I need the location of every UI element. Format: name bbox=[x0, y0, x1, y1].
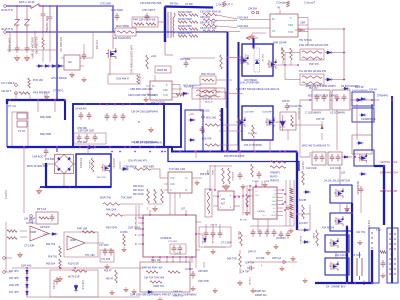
node junction extra bbox=[42, 31, 44, 33]
resistor R3 bbox=[290, 204, 293, 210]
wire led dn bbox=[321, 133, 323, 140]
wire mid stub bbox=[56, 147, 58, 152]
wire U7 bottom pin bbox=[159, 257, 161, 263]
svg-text:1M4 C6DR RFDWH 1K2: 1M4 C6DR RFDWH 1K2 bbox=[130, 45, 134, 74]
node junction extra bbox=[142, 217, 144, 219]
wire bbox=[5, 271, 12, 273]
diode D15 bbox=[121, 167, 129, 170]
resistor R30 bbox=[7, 237, 17, 240]
diode DL7 bbox=[359, 114, 367, 117]
wire doubler bbox=[36, 65, 63, 67]
capacitor CB3 bbox=[121, 113, 126, 121]
svg-text:C6R 4T6 L: C6R 4T6 L bbox=[112, 158, 114, 170]
svg-text:W6R: W6R bbox=[206, 170, 208, 175]
wire U4 to U7 a bbox=[169, 193, 171, 215]
node junction extra bbox=[26, 5, 28, 7]
wire BR1 in bbox=[42, 163, 54, 165]
resistor R18 bbox=[291, 115, 294, 127]
svg-text:CAP ASSM: CAP ASSM bbox=[8, 38, 12, 53]
wire to U4 bbox=[151, 168, 160, 170]
node line bbox=[16, 5, 18, 7]
svg-text:P4/9 FREHWR: P4/9 FREHWR bbox=[33, 92, 50, 95]
node bus A bbox=[134, 151, 136, 153]
wire bbox=[164, 189, 168, 191]
svg-text:4H 4/6DR: 4H 4/6DR bbox=[79, 158, 81, 168]
svg-text:UC3843A: UC3843A bbox=[160, 236, 172, 240]
capacitor C36 bbox=[359, 186, 364, 194]
capacitor CY2 bbox=[25, 45, 30, 53]
wire Q5 to bus bbox=[269, 140, 271, 152]
svg-text:1K0 C6R: 1K0 C6R bbox=[95, 40, 97, 50]
wire to U4 in bbox=[160, 177, 164, 179]
svg-text:W6R 7H6: W6R 7H6 bbox=[100, 197, 111, 200]
capacitor C20 bbox=[44, 148, 49, 156]
node bus A bbox=[119, 151, 121, 153]
node junction bbox=[111, 151, 113, 153]
wire bbox=[146, 93, 150, 95]
spark gap E1 bbox=[222, 1, 226, 7]
resistor R52 bbox=[380, 251, 386, 254]
wire Q4 to bus bbox=[253, 140, 255, 152]
svg-text:D4T 4H6: D4T 4H6 bbox=[9, 277, 19, 280]
ground GY1 bbox=[14, 55, 19, 61]
wire U8 out1 bbox=[234, 195, 240, 197]
svg-text:C/4 1C/D/H6V: C/4 1C/D/H6V bbox=[288, 106, 303, 108]
box aux bbox=[352, 135, 372, 154]
terminal CN1b bbox=[15, 92, 18, 95]
wire QA to QB bbox=[346, 203, 348, 213]
diode D4 bbox=[56, 65, 64, 68]
ground G-bx5 bbox=[280, 266, 284, 271]
resistor R58 bbox=[220, 110, 223, 123]
svg-text:1CT/0R: 1CT/0R bbox=[252, 181, 259, 183]
svg-text:CH3 4H6 R: CH3 4H6 R bbox=[116, 78, 129, 81]
svg-text:D1R 4T0: D1R 4T0 bbox=[4, 190, 6, 200]
svg-text:P10? 470: P10? 470 bbox=[309, 64, 319, 66]
resistor R2 bbox=[290, 196, 293, 202]
ground G-U2 bbox=[250, 34, 255, 39]
node junction bbox=[161, 151, 163, 153]
wire bbox=[80, 57, 84, 59]
capacitor C31 bbox=[320, 154, 325, 162]
node U7 bottom bbox=[185, 256, 187, 258]
node junction extra bbox=[296, 213, 298, 215]
node junction extra bbox=[238, 196, 240, 198]
capacitor CC3 bbox=[218, 230, 223, 238]
bridge rectifier BR1 bbox=[55, 155, 74, 174]
svg-text:TrtR: TrtR bbox=[170, 177, 175, 180]
svg-text:C 1C/D/WH6V: C 1C/D/WH6V bbox=[305, 112, 321, 115]
svg-text:KR4R C6DK: KR4R C6DK bbox=[178, 18, 192, 21]
wire right edge bus bbox=[391, 96, 393, 283]
node U9 bbox=[217, 196, 219, 198]
wire cap stub1 bbox=[205, 224, 207, 230]
svg-text:8C14T6: 8C14T6 bbox=[299, 236, 301, 245]
diode D24 bbox=[302, 229, 310, 232]
svg-text:W1 R 1/8 R4(2)/200: W1 R 1/8 R4(2)/200 bbox=[183, 85, 202, 87]
node U9 bbox=[233, 196, 235, 198]
svg-text:PC6 16K: PC6 16K bbox=[33, 79, 43, 82]
wire busA-B link bbox=[195, 152, 197, 159]
resistor R14 bbox=[205, 124, 219, 127]
wire bbox=[26, 29, 28, 33]
node junction extra bbox=[161, 151, 163, 153]
wire pwm in b bbox=[246, 185, 248, 215]
node band top bbox=[159, 103, 161, 105]
wire U3 top bbox=[154, 75, 156, 81]
node junction extra bbox=[16, 5, 18, 7]
ground GY2 bbox=[24, 55, 29, 61]
node line bbox=[8, 5, 10, 7]
box output filter band bbox=[73, 104, 181, 147]
wire sense line bbox=[12, 267, 100, 269]
capacitor CX1 bbox=[41, 6, 46, 32]
svg-text:W6R 12F/4R: W6R 12F/4R bbox=[273, 43, 287, 45]
ground G-C24 bbox=[105, 264, 109, 269]
box R left of U8 bbox=[205, 189, 212, 217]
box row2 loop bbox=[300, 74, 324, 85]
wire bbox=[80, 65, 84, 67]
svg-text:CT 1H: CT 1H bbox=[18, 130, 25, 133]
node junction extra bbox=[343, 52, 345, 54]
ground G-C26 bbox=[191, 286, 195, 291]
svg-text:P0/4T6R: P0/4T6R bbox=[201, 235, 203, 244]
resistor R28 bbox=[39, 217, 49, 220]
box cap cluster bbox=[199, 227, 231, 247]
wire bbox=[16, 29, 18, 33]
wire output drop bbox=[309, 205, 311, 230]
wire to U4 drop bbox=[159, 169, 161, 178]
node junction bbox=[74, 267, 76, 269]
wire U7 pin 1 bbox=[138, 222, 143, 224]
wire w stub bbox=[227, 52, 229, 58]
wire sense line ext bbox=[100, 267, 143, 269]
node junction bbox=[351, 212, 353, 214]
node band bbox=[122, 104, 124, 106]
svg-text:P101 100 P110 120 D10 4H6: P101 100 P110 120 D10 4H6 bbox=[299, 45, 329, 47]
ground G-C28 bbox=[241, 184, 245, 189]
diode DL6 bbox=[359, 98, 367, 101]
transistor Q9 bbox=[334, 216, 344, 226]
resistor R19 bbox=[19, 92, 30, 95]
wire U2 out3 bbox=[298, 31, 308, 33]
box RC filter bbox=[36, 212, 58, 224]
svg-text:P04 T1R: P04 T1R bbox=[237, 231, 239, 240]
wire D14 out bbox=[225, 93, 243, 95]
IC U8 optocoupler bbox=[218, 191, 234, 210]
node U7 pin bbox=[142, 222, 144, 224]
svg-text:8T1 36: 8T1 36 bbox=[240, 220, 247, 222]
capacitor C30 bbox=[314, 154, 319, 162]
svg-text:P0R 4T0 100: P0R 4T0 100 bbox=[201, 73, 216, 76]
svg-text:D4W8 310: D4W8 310 bbox=[255, 294, 267, 297]
svg-text:CHO RWR: CHO RWR bbox=[111, 9, 123, 12]
ground G-R40b bbox=[132, 289, 136, 294]
wire U4 dn bbox=[179, 193, 181, 198]
wire bbox=[26, 6, 28, 16]
svg-text:P0/4T6R: P0/4T6R bbox=[211, 235, 213, 244]
wire T1 primary bbox=[164, 7, 166, 43]
wire U7 pin 6 bbox=[138, 228, 143, 230]
box U6B bbox=[64, 232, 98, 257]
svg-text:R04 T04: R04 T04 bbox=[46, 243, 56, 246]
capacitor C39 bbox=[77, 134, 82, 142]
box R pair loop bbox=[192, 88, 225, 99]
wire filt out bbox=[342, 156, 352, 158]
node neutral bbox=[49, 31, 51, 33]
terminal J2 INPUT-N bbox=[4, 31, 7, 34]
node junction extra bbox=[49, 5, 51, 7]
resistor R44 bbox=[228, 168, 231, 184]
transformer T3 winding box bbox=[387, 228, 398, 283]
ground G-bx6 bbox=[303, 278, 307, 283]
wire opto1 bbox=[209, 165, 211, 190]
node junction extra bbox=[343, 28, 345, 30]
wire left edge link bbox=[6, 104, 8, 147]
svg-text:C/4T1R: C/4T1R bbox=[185, 269, 193, 271]
node junction bbox=[129, 146, 131, 148]
wire busA-B link2 bbox=[239, 152, 241, 159]
diode DL1 bbox=[26, 268, 29, 276]
node line bbox=[42, 5, 44, 7]
node junction extra bbox=[346, 282, 348, 284]
svg-text:HIV T2T 0D: HIV T2T 0D bbox=[299, 39, 312, 42]
ground G-standby bbox=[36, 188, 41, 194]
resistor R11b bbox=[290, 48, 293, 60]
wire BR1 gnd bbox=[69, 186, 71, 188]
wire secondary bus B bbox=[168, 147, 299, 171]
resistor R22 bbox=[134, 168, 151, 171]
capacitor CB1 bbox=[105, 113, 110, 121]
wire cap stub2 bbox=[212, 224, 214, 230]
node junction bbox=[238, 151, 240, 153]
svg-text:R: R bbox=[138, 120, 140, 124]
node junction extra bbox=[356, 99, 358, 101]
node bus A bbox=[179, 151, 181, 153]
node U7 bottom bbox=[172, 256, 174, 258]
svg-text:TLP 2R1 C1R: TLP 2R1 C1R bbox=[169, 167, 185, 171]
wire R11b dn bbox=[290, 60, 292, 65]
capacitor C11 bbox=[145, 13, 150, 21]
svg-text:RP GH: RP GH bbox=[170, 2, 178, 6]
ground G-bx2 bbox=[158, 297, 162, 300]
wire R42 dn bbox=[239, 268, 241, 274]
svg-text:R4R W6 R04V 104: R4R W6 R04V 104 bbox=[142, 267, 163, 270]
wire bbox=[172, 93, 180, 95]
capacitor CD1 bbox=[251, 229, 256, 237]
terminal TP3 bbox=[3, 257, 6, 260]
svg-text:MAX RWR: MAX RWR bbox=[116, 24, 129, 28]
wire U7 bottom pin bbox=[179, 257, 181, 263]
ground G-U4 bbox=[195, 180, 199, 185]
wire right leg bus bbox=[296, 152, 298, 231]
node junction extra bbox=[309, 99, 311, 101]
wire filt1 to QA bbox=[339, 166, 341, 185]
ground G-U6A bbox=[18, 252, 23, 257]
wire to output L bbox=[297, 213, 310, 215]
svg-text:4: 4 bbox=[230, 195, 231, 197]
svg-text:D8TH4/XT/D4: D8TH4/XT/D4 bbox=[380, 171, 398, 175]
wire to right bus bbox=[363, 99, 379, 101]
capacitor CD2 bbox=[258, 229, 263, 237]
node U7 bottom bbox=[166, 256, 168, 258]
capacitor C38 bbox=[285, 103, 290, 111]
diode D21 bbox=[359, 157, 367, 160]
wire into U7 b2 bbox=[139, 217, 143, 219]
svg-text:C6H 406: C6H 406 bbox=[88, 160, 90, 169]
node bbox=[54, 99, 56, 101]
svg-text:C6P 4P: C6P 4P bbox=[282, 101, 290, 103]
op-amp U6A bbox=[30, 226, 49, 241]
resistor RW2a bbox=[178, 21, 187, 24]
wire U9 pin 1CT bbox=[277, 211, 283, 213]
svg-text:CTI RGG: CTI RGG bbox=[53, 90, 63, 93]
wire box link bbox=[339, 203, 341, 213]
node bus A bbox=[239, 151, 241, 153]
capacitor C34 electrolytic bbox=[357, 252, 362, 280]
wire cap link bbox=[360, 194, 362, 213]
box sync rect D bbox=[325, 258, 349, 275]
svg-text:R0? 4K10: R0? 4K10 bbox=[133, 189, 144, 192]
node junction extra bbox=[49, 31, 51, 33]
wire centre tap stub bbox=[253, 38, 255, 48]
svg-text:1H6 08T T2K/9A/C8/H0-CH6 2/H6: 1H6 08T T2K/9A/C8/H0-CH6 2/H6 20 bbox=[236, 87, 280, 91]
diode D26 on bus bbox=[87, 145, 96, 149]
resistor R3 bbox=[146, 23, 156, 26]
wire pwm in c bbox=[249, 185, 251, 215]
resistor R4 bbox=[290, 212, 293, 218]
wire main output bus bbox=[7, 100, 65, 104]
svg-text:K04 R0DHI: K04 R0DHI bbox=[322, 227, 334, 230]
wire U6A out bbox=[43, 233, 50, 235]
node U7 bottom bbox=[191, 256, 193, 258]
node junction extra bbox=[129, 146, 131, 148]
node U9 bbox=[296, 151, 298, 153]
svg-text:CH6 WD: CH6 WD bbox=[77, 141, 87, 144]
box out switch bbox=[354, 150, 374, 166]
ground G-U5 bbox=[70, 72, 75, 77]
wire U7 r3 bbox=[196, 249, 200, 251]
node junction extra bbox=[253, 47, 255, 49]
wire RF4 out bbox=[217, 31, 240, 33]
resistor RF2 bbox=[203, 19, 217, 22]
terminal CM354 bbox=[252, 11, 255, 14]
svg-text:C6R 4P: C6R 4P bbox=[261, 54, 263, 62]
node junction extra bbox=[87, 146, 89, 148]
svg-text:W1T6 51R: W1T6 51R bbox=[68, 276, 80, 279]
svg-text:P4R 10R P10R W6: P4R 10R P10R W6 bbox=[133, 18, 156, 22]
transistor Q6 standby bbox=[101, 163, 110, 173]
node neutral bbox=[34, 31, 36, 33]
svg-text:IN PUT N: IN PUT N bbox=[1, 27, 13, 31]
capacitor C15 bbox=[335, 94, 340, 102]
node band bbox=[114, 104, 116, 106]
svg-text:C0/TR: C0/TR bbox=[271, 215, 277, 217]
svg-text:D16 4P: D16 4P bbox=[355, 85, 364, 89]
svg-text:+1V: +1V bbox=[189, 112, 194, 116]
wire U7 bottom pin bbox=[191, 257, 193, 263]
svg-text:24 W6 4K/: 24 W6 4K/ bbox=[75, 108, 87, 111]
node junction bbox=[356, 99, 358, 101]
wire U6B out bbox=[85, 242, 104, 244]
node lower bus bbox=[154, 146, 156, 148]
wire bottom tie bbox=[27, 296, 100, 298]
box CT1 bbox=[100, 250, 114, 262]
resistor R6 bbox=[302, 57, 322, 60]
svg-text:C10 C04F: C10 C04F bbox=[306, 167, 317, 170]
svg-text:C04 60RF: C04 60RF bbox=[244, 112, 254, 114]
svg-text:IN PUT P: IN PUT P bbox=[1, 8, 13, 12]
ground G-ct bbox=[211, 249, 215, 254]
svg-text:TrtR: TrtR bbox=[163, 94, 168, 97]
transistor Q10 bbox=[329, 238, 339, 248]
wire R15 drop bbox=[237, 145, 239, 152]
svg-text:D6K P/6/ 10R: D6K P/6/ 10R bbox=[200, 22, 215, 25]
svg-text:C6R: C6R bbox=[288, 24, 293, 27]
wire out bus L bbox=[374, 166, 384, 225]
diode D12 bbox=[188, 119, 196, 122]
node U9 bbox=[242, 195, 244, 197]
transistor Q2 bbox=[239, 55, 249, 65]
svg-text:P4R 10R: P4R 10R bbox=[77, 228, 87, 231]
svg-text:24R8 310: 24R8 310 bbox=[255, 290, 266, 293]
svg-text:1H6 1T0R/P06R: 1H6 1T0R/P06R bbox=[240, 81, 259, 85]
node junction extra bbox=[26, 279, 28, 281]
node junction extra bbox=[56, 5, 58, 7]
resistor R12 bbox=[202, 79, 214, 82]
svg-text:D4 8/T0/60R/H0: D4 8/T0/60R/H0 bbox=[352, 90, 368, 92]
node junction extra bbox=[371, 282, 373, 284]
svg-text:R048T: R048T bbox=[312, 233, 314, 240]
wire row1 out bbox=[332, 52, 344, 54]
ground G-P6 bbox=[82, 77, 86, 82]
wire U2 out1 bbox=[298, 17, 308, 19]
node junction extra bbox=[209, 189, 211, 191]
box rectifier out bbox=[185, 110, 203, 152]
wire pwm out c bbox=[293, 180, 295, 226]
wire bias net bbox=[7, 49, 57, 51]
svg-text:C04 C4T7: C04 C4T7 bbox=[351, 255, 362, 257]
svg-text:C01 T81: C01 T81 bbox=[356, 231, 366, 234]
wire bbox=[16, 6, 18, 16]
wire C04 node bbox=[183, 57, 215, 59]
IC U4 supervisor bbox=[168, 172, 192, 193]
svg-text:D1T 4H0: D1T 4H0 bbox=[9, 270, 19, 273]
wire U7 bottom pin bbox=[185, 257, 187, 263]
box snubber bbox=[132, 17, 158, 27]
resistor R16 bbox=[252, 125, 255, 138]
node bus A bbox=[254, 151, 256, 153]
diode DL2 bbox=[26, 275, 29, 283]
node U7 bottom bbox=[152, 256, 154, 258]
resistor R20 bbox=[28, 78, 31, 88]
svg-text:RW) W6R: RW) W6R bbox=[40, 133, 51, 136]
box RB1 bbox=[200, 76, 216, 84]
node U9 bbox=[248, 195, 250, 197]
svg-text:T4V: T4V bbox=[376, 228, 381, 232]
box loop2 bbox=[352, 108, 374, 122]
svg-text:TR6R8T0: TR6R8T0 bbox=[270, 173, 281, 175]
svg-text:C 0ircuit P: C 0ircuit P bbox=[304, 2, 316, 5]
svg-text:C6R: C6R bbox=[163, 89, 168, 92]
ground G-bx4 bbox=[266, 250, 270, 255]
node junction extra bbox=[336, 99, 338, 101]
wire R12 out bbox=[216, 79, 232, 81]
node junction bbox=[142, 228, 144, 230]
node junction bbox=[343, 52, 345, 54]
capacitor C16 bbox=[342, 94, 347, 102]
diode D6 bbox=[325, 78, 333, 81]
